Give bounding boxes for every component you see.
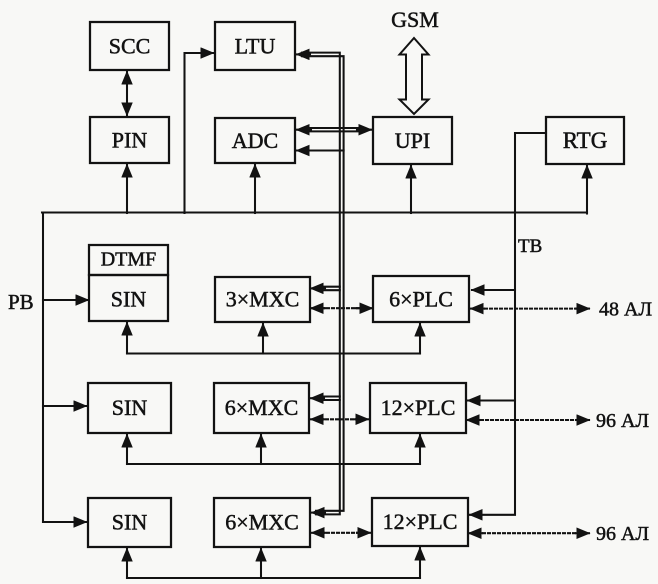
wire bus up to PIN [126,165,128,213]
svg-text:DTMF: DTMF [101,249,157,271]
block DTMF [89,245,168,275]
wire bus to LTU [185,53,214,213]
dotted MXC1-PLC1 [322,307,360,309]
svg-text:12×PLC: 12×PLC [381,395,456,420]
arrow trunk into MXC2 [311,397,324,399]
dotted PLC1 to 48AL [480,308,578,310]
block SIN2 [88,383,171,433]
wire left drop PB [42,213,44,523]
svg-text:6×MXC: 6×MXC [225,510,299,535]
dotted PLC3 to 96AL [478,532,578,534]
wire ADC-UPI double arrow shaft top [303,127,365,129]
svg-text:UPI: UPI [395,128,430,153]
dotted MXC3-PLC3 [322,532,361,534]
arrow trunk into MXC3 [312,512,325,514]
wire arrow into SIN1 [43,299,88,301]
svg-text:ADC: ADC [232,128,278,153]
feedback row2 [127,463,420,465]
block UPI [373,117,452,164]
svg-text:6×MXC: 6×MXC [225,395,299,420]
block SIN1 [89,275,168,321]
feedback row3 [127,577,420,579]
svg-text:SIN: SIN [112,395,148,420]
block 6xMXC2 [214,383,309,433]
svg-text:96 АЛ: 96 АЛ [596,410,649,432]
wire bus horizontal [42,211,587,213]
block LTU [215,22,295,70]
svg-text:РВ: РВ [8,290,34,314]
wire SCC-PIN double arrow [126,72,128,115]
svg-text:SCC: SCC [109,34,151,59]
wire trunk into MXC1 shafts [320,286,340,288]
block PIN [90,117,169,163]
arrow trunk into LTU [297,53,310,55]
dotted MXC2-PLC2 [321,418,359,420]
svg-text:SIN: SIN [111,287,147,312]
svg-text:96 АЛ: 96 АЛ [596,523,649,545]
svg-text:6×PLC: 6×PLC [389,287,453,312]
arrow trunk into MXC1 [311,287,325,289]
wire TB vertical from RTG [470,133,546,515]
wire bus up to RTG [586,166,588,214]
svg-text:12×PLC: 12×PLC [383,509,458,534]
block 12xPLC3 [372,498,468,546]
block ADC [215,118,295,163]
wire ADC-UPI double arrow shaft bottom [303,130,365,132]
block SIN3 [88,498,171,547]
arrowheads ADC-UPI [297,129,311,131]
feedback row1 [127,352,420,354]
svg-text:PIN: PIN [112,128,148,153]
wire bus up to UPI [410,166,412,213]
svg-text:SIN: SIN [112,510,148,535]
wire bus up to ADC [254,165,256,213]
block RTG [546,117,624,164]
wire trunk into ADC [297,149,344,151]
block 12xPLC2 [370,383,466,433]
dotted PLC2 to 96AL [476,419,578,421]
block 6xMXC3 [214,498,310,547]
wire TB into PLC1 [472,289,515,291]
wire arrow into SIN3 [43,521,86,523]
svg-text:48 АЛ: 48 АЛ [599,299,652,321]
double trunk line left [302,53,340,515]
svg-text:ТВ: ТВ [518,236,542,257]
double trunk line right [302,56,344,511]
wire TB into PLC2 [468,399,515,401]
block 3xMXC [215,277,310,322]
svg-text:LTU: LTU [235,34,276,59]
wire arrow into SIN2 [43,405,86,407]
block 6xPLC [373,276,469,322]
svg-text:RTG: RTG [563,128,608,153]
wire trunk into MXC2 shafts [320,395,340,397]
block SCC [90,22,169,70]
svg-text:3×MXC: 3×MXC [226,287,300,312]
svg-text:GSM: GSM [391,7,439,32]
hollow double arrow GSM-UPI [400,38,429,114]
